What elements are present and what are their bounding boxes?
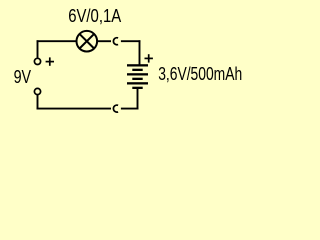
cell plate short 2 [132, 78, 142, 80]
plus sign at battery top [145, 54, 153, 62]
wire down to battery top [139, 40, 141, 65]
connector arc top [113, 38, 118, 45]
cell plate long 3 [127, 82, 148, 84]
wire lamp-right segment [97, 40, 111, 42]
svg-text:9V: 9V [14, 66, 32, 87]
wire bottom rail left segment [37, 108, 111, 110]
cell plate long 2 [127, 73, 148, 75]
svg-text:6V/0,1A: 6V/0,1A [68, 5, 122, 26]
plus sign at top-left terminal [46, 57, 54, 65]
svg-text:3,6V/500mAh: 3,6V/500mAh [158, 63, 242, 84]
terminal bottom-left (open circle) [34, 88, 40, 94]
wire lamp-left to corner [37, 40, 77, 42]
lamp [77, 31, 98, 52]
cell plate long 1 [127, 64, 148, 66]
connector arc bottom [113, 105, 118, 112]
terminal top-left (open circle) [34, 58, 40, 64]
battery (3 cells, 3,6V) [127, 64, 148, 89]
wire bottom terminal down to corner [37, 95, 39, 110]
wire corner down to top terminal [37, 40, 39, 58]
cell plate short 3 [132, 87, 142, 89]
cell plate short 1 [132, 69, 142, 71]
wire up to battery bottom [137, 88, 139, 110]
wire top rail right segment [121, 40, 140, 42]
wire bottom rail right segment [121, 108, 138, 110]
